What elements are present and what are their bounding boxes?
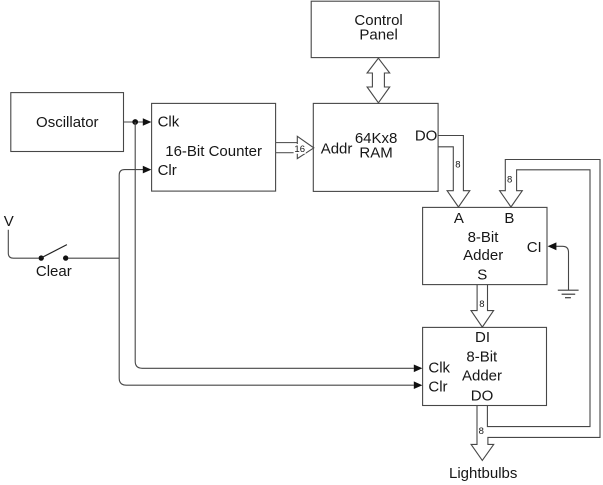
svg-text:RAM: RAM: [359, 144, 392, 161]
arrowhead: into U2 Clr: [414, 381, 423, 389]
svg-text:Oscillator: Oscillator: [36, 114, 99, 131]
wire: oscillator output to counter Clk: [124, 121, 144, 123]
svg-text:8: 8: [507, 175, 512, 186]
block: Oscillator: [11, 93, 124, 152]
svg-text:DO: DO: [471, 387, 494, 404]
arrowhead: into counter Clr: [143, 166, 152, 174]
svg-text:V: V: [4, 213, 14, 230]
bus: RAM DO to adder U1 input A, width 8: [438, 136, 470, 208]
svg-text:8-Bit: 8-Bit: [468, 229, 500, 246]
svg-text:8: 8: [479, 426, 484, 437]
svg-text:8: 8: [479, 299, 484, 310]
bus: U1 output S to U2 input DI, width 8: [471, 285, 494, 327]
bus width label: 8 (A bus): [454, 159, 461, 170]
svg-text:DI: DI: [475, 329, 490, 346]
bus width label: 8 (B bus): [506, 174, 513, 185]
svg-text:16: 16: [294, 144, 305, 155]
svg-text:CI: CI: [527, 239, 542, 256]
svg-text:16-Bit Counter: 16-Bit Counter: [165, 143, 262, 160]
bus width label: 16: [294, 144, 306, 155]
block: 8-Bit Adder U1 (top): [423, 207, 547, 284]
block: 64Kx8 RAM: [313, 103, 438, 191]
svg-text:Clk: Clk: [428, 360, 450, 377]
bus: feedback loop from U2 DO to U1 input B and Lightbulbs arrow (outer outline): [471, 160, 600, 461]
svg-text:Adder: Adder: [463, 247, 503, 264]
bus width label: 8 (Lightbulbs bus): [478, 426, 485, 437]
wire: switch to clear line (T junction): [68, 257, 119, 259]
svg-text:S: S: [477, 267, 487, 284]
svg-text:Clr: Clr: [158, 162, 177, 179]
svg-text:8-Bit: 8-Bit: [466, 349, 498, 366]
block: 16-Bit Counter: [152, 103, 276, 191]
ground symbol: [558, 290, 579, 298]
svg-text:Adder: Adder: [462, 368, 502, 385]
wire: U1 CI from ground: [556, 246, 568, 290]
wire: clock line down to U2 Clk: [135, 122, 414, 368]
switch SW1: Clear pushbutton: [39, 245, 69, 261]
wire: V to switch: [8, 230, 38, 258]
svg-text:Clr: Clr: [428, 378, 447, 395]
bus: feedback loop inner outline: [487, 170, 590, 427]
svg-text:A: A: [454, 210, 464, 227]
svg-text:Clk: Clk: [158, 114, 180, 131]
svg-text:DO: DO: [415, 128, 438, 145]
bus: counter Addr to RAM, width 16: [276, 136, 314, 158]
arrowhead: into U2 Clk: [414, 365, 423, 373]
svg-text:Addr: Addr: [321, 140, 353, 157]
svg-text:B: B: [504, 210, 514, 227]
junction: node at oscillator output: [132, 119, 138, 125]
block: 8-Bit Adder U2 (bottom): [423, 327, 547, 405]
bus width label: 8 (S bus): [478, 299, 485, 310]
block: Control Panel: [311, 1, 439, 57]
bus: Control Panel to RAM (bidirectional hollow arrow): [367, 58, 390, 103]
svg-text:Lightbulbs: Lightbulbs: [449, 465, 517, 482]
svg-text:8: 8: [455, 159, 460, 170]
svg-text:Panel: Panel: [359, 27, 397, 44]
svg-text:Clear: Clear: [36, 263, 72, 280]
arrowhead: into U1 CI: [548, 242, 557, 250]
wire: clear line from counter Clr down to U2 Clr: [119, 170, 414, 386]
arrowhead: into counter Clk: [143, 118, 152, 126]
